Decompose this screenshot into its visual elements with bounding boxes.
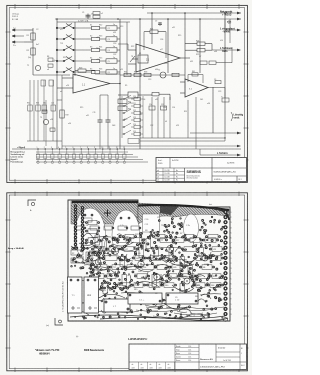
svg-text:k22: k22 <box>228 23 231 25</box>
svg-text:7: 7 <box>80 147 81 149</box>
vertical caps x100 x108 <box>99 95 101 120</box>
svg-text:12.4.: 12.4. <box>188 360 192 362</box>
svg-text:u8: u8 <box>47 69 49 71</box>
extra scatter pads <box>70 235 223 320</box>
box pair y62 <box>200 61 207 64</box>
svg-text:k3: k3 <box>165 121 167 123</box>
svg-text:R14: R14 <box>99 47 102 49</box>
wire rows y138 y141 <box>140 137 225 139</box>
dark wedge blob <box>160 204 179 215</box>
wire vertical x230 <box>229 19 231 43</box>
svg-text:SIEMENS: SIEMENS <box>187 170 201 174</box>
svg-text:3: 3 <box>231 268 232 270</box>
svg-text:N2: N2 <box>109 290 111 292</box>
bottom wavy traces <box>70 315 228 320</box>
svg-text:C4: C4 <box>108 50 110 52</box>
svg-text:R61: R61 <box>27 103 30 105</box>
svg-text:9: 9 <box>231 299 232 301</box>
svg-text:1-W105-W1207-U: 1-W105-W1207-U <box>128 338 148 341</box>
svg-text:3: 3 <box>231 222 232 224</box>
svg-text:(w): (w) <box>46 325 49 327</box>
right terminal labels <box>237 12 241 15</box>
svg-text:(a): (a) <box>76 336 79 338</box>
svg-text:Bl. 2 AB: Bl. 2 AB <box>12 18 19 21</box>
svg-text:R5: R5 <box>125 85 127 87</box>
svg-text:R15: R15 <box>99 58 102 60</box>
scattered tiny labels schematic <box>47 23 231 127</box>
svg-text:+ Ri(ged): + Ri(ged) <box>17 147 26 149</box>
wire bottom rail <box>12 148 241 150</box>
svg-text:S5: S5 <box>90 69 92 71</box>
svg-text:C15: C15 <box>161 104 164 106</box>
svg-text:R2: R2 <box>27 50 29 52</box>
op-amp U1 <box>73 74 110 93</box>
connector text block <box>11 151 25 164</box>
bracket note right <box>231 112 233 121</box>
svg-text:R13: R13 <box>63 57 66 59</box>
svg-text:T2: T2 <box>158 70 160 72</box>
svg-text:Name: Name <box>176 360 180 362</box>
svg-text:+ W103: + W103 <box>222 12 232 16</box>
svg-text:1n: 1n <box>113 46 115 48</box>
svg-text:4.83: 4.83 <box>150 367 153 369</box>
svg-text:12.4.83: 12.4.83 <box>165 173 170 175</box>
svg-text:C3: C3 <box>140 114 142 116</box>
svg-text:n4: n4 <box>60 91 62 93</box>
svg-text:R24: R24 <box>196 40 199 42</box>
svg-text:3: 3 <box>231 314 232 316</box>
svg-text:K1: K1 <box>139 53 141 55</box>
svg-text:N6: N6 <box>203 267 205 269</box>
svg-text:G3: G3 <box>124 227 127 229</box>
border tick marks <box>6 4 249 184</box>
svg-text:C13: C13 <box>148 79 151 81</box>
svg-text:C9: C9 <box>214 79 216 81</box>
reg mark bottom-left <box>55 318 63 325</box>
svg-text:S-W105-W50F-A/B =-N1: S-W105-W50F-A/B =-N1 <box>214 171 237 174</box>
svg-text:G25: G25 <box>157 247 161 249</box>
wire row y146 with arrow <box>62 145 238 147</box>
svg-text:1n: 1n <box>113 57 115 59</box>
svg-text:R11: R11 <box>156 237 159 239</box>
component rows with pads <box>88 220 222 295</box>
svg-text:C23: C23 <box>133 117 136 119</box>
long cap C1 <box>128 293 162 304</box>
svg-text:u6: u6 <box>120 99 122 101</box>
svg-text:L23: L23 <box>213 249 216 251</box>
wire vertical x200 <box>199 19 201 73</box>
svg-text:G20: G20 <box>126 237 130 239</box>
svg-text:R7: R7 <box>180 233 182 235</box>
svg-text:1a W 298: 1a W 298 <box>223 360 231 362</box>
svg-text:12.4.83: 12.4.83 <box>165 170 170 172</box>
svg-text:C 1 +: C 1 + <box>139 300 145 302</box>
svg-text:8: 8 <box>87 147 88 149</box>
svg-text:C21: C21 <box>182 260 185 262</box>
svg-text:N20: N20 <box>134 274 137 276</box>
svg-text:ab: ab <box>150 364 152 366</box>
svg-text:n31: n31 <box>86 115 89 117</box>
left chain R1 R2 T1 <box>32 28 34 75</box>
svg-text:2: 2 <box>231 263 232 265</box>
transistor T2 <box>160 72 166 78</box>
svg-text:D10: D10 <box>165 285 168 287</box>
svg-text:10: 10 <box>101 147 103 149</box>
svg-text:4.83: 4.83 <box>132 367 135 369</box>
svg-text:a b: a b <box>157 173 159 175</box>
svg-text:R25: R25 <box>124 119 127 121</box>
svg-text:Erst f.: Erst f. <box>158 159 163 162</box>
svg-text:4.83: 4.83 <box>168 367 171 369</box>
svg-text:G23: G23 <box>136 258 139 260</box>
svg-text:13: 13 <box>123 147 125 149</box>
svg-text:R13: R13 <box>120 26 123 28</box>
svg-text:1: 1 <box>231 212 232 214</box>
svg-text:C14: C14 <box>143 267 146 269</box>
svg-text:W105 F: W105 F <box>12 16 18 18</box>
wire vertical x225 <box>224 13 226 133</box>
svg-text:1n: 1n <box>113 68 115 70</box>
svg-text:8: 8 <box>231 294 232 296</box>
svg-text:Hu: Hu <box>176 173 178 175</box>
svg-text:C23: C23 <box>218 91 221 93</box>
can circles <box>111 247 118 254</box>
svg-text:R9: R9 <box>199 276 201 278</box>
svg-text:C7: C7 <box>199 56 201 58</box>
PCB board outline <box>68 200 230 321</box>
svg-text:D18: D18 <box>211 285 214 287</box>
svg-text:G10: G10 <box>204 264 208 266</box>
svg-text:C36: C36 <box>160 39 163 41</box>
R19 ladder <box>60 110 64 118</box>
caps above U2 <box>159 22 161 26</box>
svg-text:Gepr.: Gepr. <box>176 349 180 351</box>
wire vertical x168 <box>167 19 169 73</box>
wire row y75 mid <box>120 74 185 76</box>
under-dome component row <box>76 226 139 230</box>
svg-text:1n: 1n <box>113 24 115 26</box>
svg-text:hat: hat <box>209 203 212 206</box>
arrow y50 <box>237 49 241 52</box>
svg-text:R41: R41 <box>192 71 195 73</box>
svg-text:C11: C11 <box>93 112 96 114</box>
svg-text:2: 2 <box>44 147 45 149</box>
svg-text:*Hinweis nach TV-/750: *Hinweis nach TV-/750 <box>35 350 60 352</box>
svg-text:12.4.: 12.4. <box>188 353 192 355</box>
svg-text:4.83: 4.83 <box>141 367 144 369</box>
svg-text:u35: u35 <box>155 99 158 101</box>
svg-text:n31: n31 <box>172 27 175 29</box>
svg-text:C18: C18 <box>113 43 116 45</box>
svg-text:a b: a b <box>157 170 159 172</box>
reg mark top-left <box>28 200 36 206</box>
border ticks sheet2 <box>6 192 249 373</box>
svg-text:12.4.: 12.4. <box>188 357 192 359</box>
electrolytic cap T1 <box>68 277 83 313</box>
svg-text:R22: R22 <box>131 46 134 48</box>
svg-text:D6: D6 <box>143 99 145 101</box>
cap bank verticals <box>151 97 153 138</box>
white slot C30/C31 <box>143 214 160 232</box>
title block sheet2 <box>129 344 247 370</box>
svg-text:5: 5 <box>231 232 232 234</box>
svg-text:u17: u17 <box>160 49 163 51</box>
svg-text:6: 6 <box>231 238 232 240</box>
svg-text:S2: S2 <box>90 36 92 38</box>
U2 feedback <box>150 30 158 33</box>
left column small rects <box>71 250 83 255</box>
svg-text:S3: S3 <box>90 47 92 49</box>
svg-text:by W39B: by W39B <box>227 163 235 165</box>
registration cross <box>104 210 111 217</box>
right section pad cluster under band <box>139 216 224 237</box>
svg-text:T13: T13 <box>60 43 63 45</box>
svg-text:G9: G9 <box>138 253 141 255</box>
wire vertical x120 <box>119 19 121 149</box>
wire second rail <box>55 18 241 20</box>
svg-text:13 Baugr.: 13 Baugr. <box>12 13 20 16</box>
svg-text:1n: 1n <box>113 35 115 37</box>
thick top edge trace <box>72 202 229 210</box>
wire vertical x213 <box>212 87 214 133</box>
white dome cutout mid <box>112 210 140 260</box>
op-amp U2 <box>136 44 180 72</box>
wire vertical x185 <box>184 13 186 79</box>
corner curve right <box>214 209 229 220</box>
svg-text:12: 12 <box>116 147 118 149</box>
wire vertical x62 <box>61 75 63 149</box>
svg-text:n40: n40 <box>96 59 99 61</box>
lower mid boxes <box>128 92 138 98</box>
electrolytic cap T2 <box>84 277 99 313</box>
svg-text:C24: C24 <box>133 124 136 126</box>
svg-text:R8: R8 <box>47 56 49 58</box>
svg-text:S4: S4 <box>90 58 92 60</box>
svg-text:k35: k35 <box>190 61 193 63</box>
svg-text:N15: N15 <box>134 289 137 291</box>
svg-text:G23: G23 <box>196 285 200 287</box>
svg-text:R62: R62 <box>36 103 39 105</box>
wire vertical x152 <box>151 13 153 44</box>
left mid cluster <box>48 58 53 61</box>
svg-text:Siemens AG: Siemens AG <box>200 358 213 361</box>
input terminals left <box>12 29 24 43</box>
svg-text:12.4.: 12.4. <box>188 349 192 351</box>
svg-text:4u7: 4u7 <box>36 44 39 46</box>
wire vertical x140 <box>139 19 141 149</box>
svg-text:C 31: C 31 <box>145 224 149 226</box>
svg-text:N3: N3 <box>145 230 147 232</box>
svg-text:2: 2 <box>231 217 232 219</box>
svg-text:4: 4 <box>58 147 59 149</box>
svg-text:k14: k14 <box>220 40 223 42</box>
svg-text:T17: T17 <box>113 267 116 269</box>
svg-text:C18: C18 <box>163 107 166 109</box>
svg-text:ab: ab <box>141 364 143 366</box>
connector strip lines <box>36 151 128 153</box>
svg-text:1: 1 <box>231 304 232 306</box>
svg-text:R18: R18 <box>79 67 82 69</box>
svg-text:G24: G24 <box>142 277 146 279</box>
svg-text:L Schirm: L Schirm <box>217 152 228 155</box>
transistor T3 lower-left <box>43 119 48 124</box>
svg-text:E=W75F: E=W75F <box>172 160 179 162</box>
svg-text:u2: u2 <box>101 13 103 15</box>
svg-text:Hu: Hu <box>176 176 178 178</box>
svg-text:G23: G23 <box>102 290 106 292</box>
wire vertical x196 down <box>195 97 197 149</box>
stacked boxes R44 R45 <box>118 99 127 104</box>
C9 Tr <box>215 81 221 84</box>
svg-text:D39: D39 <box>164 63 167 65</box>
svg-text:2-TV-5A1/IPN-G76-L7ET-02/-U2-W: 2-TV-5A1/IPN-G76-L7ET-02/-U2-W2 <box>62 281 65 312</box>
svg-text:u36: u36 <box>207 103 210 105</box>
svg-text:C20: C20 <box>133 96 136 98</box>
svg-text:u17: u17 <box>60 29 63 31</box>
svg-text:7: 7 <box>231 243 232 245</box>
svg-text:C7: C7 <box>155 21 157 23</box>
svg-text:C9: C9 <box>175 297 177 299</box>
capacitor C1 top <box>87 14 89 20</box>
svg-text:R51: R51 <box>184 111 187 113</box>
svg-text:1-W105-W1207-.A/B =-PK3: 1-W105-W1207-.A/B =-PK3 <box>200 366 226 369</box>
svg-text:ab: ab <box>168 364 170 366</box>
svg-text:a b: a b <box>157 180 159 182</box>
svg-text:R13: R13 <box>99 36 102 38</box>
svg-text:Hu: Hu <box>176 180 178 182</box>
connector hanging comps <box>36 148 126 163</box>
U3 feedback <box>188 74 203 76</box>
svg-text:Inverter: Inverter <box>218 347 226 350</box>
svg-text:8: 8 <box>231 248 232 250</box>
svg-text:W105: W105 <box>158 163 162 165</box>
svg-text:T7: T7 <box>161 240 163 242</box>
svg-text:6868 Bauelemente: 6868 Bauelemente <box>84 349 105 352</box>
labels scatter pcb <box>87 217 208 299</box>
svg-text:7: 7 <box>231 289 232 291</box>
svg-text:C14: C14 <box>149 104 152 106</box>
svg-text:D20: D20 <box>182 266 185 268</box>
svg-text:C5: C5 <box>157 217 159 219</box>
dome interior components <box>84 214 87 217</box>
white dome cutout right <box>184 214 199 242</box>
svg-text:Bearb.: Bearb. <box>176 346 181 348</box>
svg-text:6: 6 <box>231 283 232 285</box>
svg-text:6: 6 <box>73 147 74 149</box>
svg-text:C16: C16 <box>172 107 175 109</box>
sheet 1 border frame <box>7 5 248 182</box>
left comb verticals <box>29 80 31 141</box>
inductor L7 <box>104 299 130 312</box>
svg-text:G27: G27 <box>160 281 164 283</box>
svg-text:C2: C2 <box>108 28 110 30</box>
svg-text:4-W403 a: 4-W403 a <box>214 179 222 181</box>
svg-text:4-T09 f 12 A: 4-T09 f 12 A <box>78 19 89 22</box>
svg-text:Potentialausgl.: Potentialausgl. <box>11 161 24 164</box>
svg-text:T2: T2 <box>161 225 163 227</box>
svg-text:1: 1 <box>241 353 242 355</box>
svg-text:9: 9 <box>231 253 232 255</box>
svg-text:R12: R12 <box>99 25 102 27</box>
svg-text:C 30: C 30 <box>145 219 149 221</box>
svg-text:ab: ab <box>132 364 134 366</box>
svg-text:12.4.83: 12.4.83 <box>165 176 170 178</box>
svg-text:G7: G7 <box>141 239 144 241</box>
wire row y75 left <box>33 74 70 76</box>
svg-text:C42: C42 <box>51 103 54 105</box>
corner text block top-left <box>12 13 20 21</box>
svg-text:k23: k23 <box>176 125 179 127</box>
svg-text:R16: R16 <box>99 69 102 71</box>
wire vertical bus x57 <box>56 19 58 149</box>
svg-text:T3: T3 <box>40 117 42 119</box>
svg-text:E-6.2: E-6.2 <box>241 365 245 367</box>
svg-text:R8: R8 <box>195 296 197 298</box>
svg-text:ab: ab <box>159 364 161 366</box>
switch/resistor rows <box>56 24 120 75</box>
svg-text:u26: u26 <box>66 85 69 87</box>
svg-text:n25: n25 <box>120 69 123 71</box>
svg-text:G35: G35 <box>173 267 176 269</box>
svg-text:R24: R24 <box>87 295 90 297</box>
svg-text:R27: R27 <box>176 240 179 242</box>
svg-text:G4: G4 <box>108 276 110 278</box>
svg-text:R9: R9 <box>155 293 157 295</box>
svg-text:R33: R33 <box>144 72 147 74</box>
svg-text:4: 4 <box>231 273 232 275</box>
svg-text:R15: R15 <box>178 35 181 37</box>
svg-text:12.4.83: 12.4.83 <box>165 180 170 182</box>
hatched copper band top right section <box>138 203 229 224</box>
U1 feedback <box>78 69 86 72</box>
svg-text:R1: R1 <box>27 35 29 37</box>
svg-text:a b: a b <box>157 176 159 178</box>
svg-text:4: 4 <box>231 227 232 229</box>
svg-text:5: 5 <box>65 147 66 149</box>
svg-text:C37: C37 <box>130 103 133 105</box>
comb boxes <box>28 105 32 111</box>
svg-text:T19: T19 <box>126 267 129 269</box>
svg-text:Ansg = 34.46.46: Ansg = 34.46.46 <box>8 247 24 250</box>
svg-text:Lötseitig: Lötseitig <box>234 113 244 116</box>
svg-text:C3: C3 <box>108 39 110 41</box>
svg-text:D48: D48 <box>112 125 115 127</box>
svg-text:trafo: trafo <box>222 50 228 53</box>
left pad column <box>74 204 84 251</box>
svg-text:C22: C22 <box>133 110 136 112</box>
svg-text:C5: C5 <box>108 61 110 63</box>
svg-text:D21: D21 <box>150 285 153 287</box>
op-amp U3 <box>185 79 208 97</box>
svg-text:R32: R32 <box>134 72 137 74</box>
svg-text:R29: R29 <box>135 234 138 236</box>
wire top rail <box>147 12 241 14</box>
relay K1 <box>138 55 148 63</box>
svg-text:3: 3 <box>51 147 52 149</box>
trace squiggles <box>67 233 224 318</box>
svg-text:C1: C1 <box>82 12 84 14</box>
svg-text:C25: C25 <box>133 131 136 133</box>
svg-text:n34: n34 <box>68 123 71 125</box>
svg-text:D41: D41 <box>200 99 203 101</box>
svg-text:Norm: Norm <box>176 353 181 355</box>
switch bank 2 <box>122 95 143 143</box>
svg-text:D28: D28 <box>138 271 141 273</box>
svg-text:9: 9 <box>94 147 95 149</box>
svg-text:1: 1 <box>37 147 38 149</box>
wire vertical x127 <box>126 22 128 75</box>
svg-text:T1: T1 <box>27 65 29 67</box>
